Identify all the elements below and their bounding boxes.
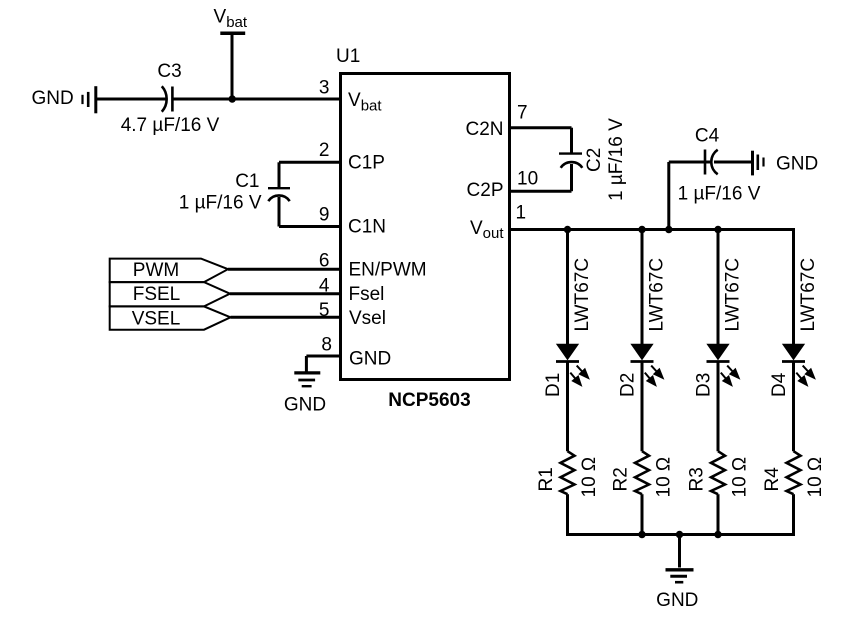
svg-text:GND: GND [32, 88, 74, 109]
junction node R3 [714, 531, 721, 538]
connector flag PWM [110, 259, 228, 283]
wire C3 to pin 3 [172, 98, 340, 101]
capacitor C1 [268, 188, 290, 201]
ground symbol (C4) [753, 151, 764, 176]
svg-text:NCP5603: NCP5603 [388, 390, 470, 411]
LED D1 [557, 345, 577, 360]
svg-text:VSEL: VSEL [132, 309, 181, 330]
svg-text:LWT67C: LWT67C [572, 258, 593, 332]
ground symbol (bottom) [666, 570, 694, 582]
LED column D3 [687, 230, 751, 535]
svg-text:GND: GND [349, 349, 391, 370]
wire R1 bottom [566, 494, 569, 534]
svg-text:10 Ω: 10 Ω [579, 457, 600, 498]
wire D1 anode [566, 230, 569, 345]
wire C2 bottom branch [570, 164, 573, 191]
junction node R2 [638, 531, 645, 538]
wire pin 2 to C1 [279, 161, 341, 164]
wire bottom bus [566, 533, 795, 536]
wire D1 cathode [566, 362, 569, 452]
wire D4 anode [792, 228, 795, 345]
svg-text:C1: C1 [235, 171, 259, 192]
capacitor C2 [559, 154, 582, 168]
junction node at Vbat [229, 95, 236, 102]
wire D3 anode [717, 230, 720, 345]
LED column D2 [611, 230, 675, 535]
wire C4 left [669, 161, 710, 164]
wire R2 bottom [641, 494, 644, 534]
svg-text:GND: GND [656, 590, 698, 611]
LED D4 [783, 345, 803, 360]
LED column D1 [536, 230, 600, 535]
wire ground stem (bottom) [678, 535, 681, 568]
svg-text:1 µF/16 V: 1 µF/16 V [678, 184, 761, 205]
connector flag VSEL [110, 306, 231, 329]
svg-text:U1: U1 [336, 46, 360, 67]
wire C1 top branch [278, 162, 281, 187]
svg-text:D3: D3 [694, 373, 715, 397]
wire pin 6 [228, 268, 341, 271]
LED D2 [632, 345, 652, 360]
svg-text:C2: C2 [584, 148, 605, 172]
svg-text:6: 6 [319, 250, 330, 271]
svg-text:FSEL: FSEL [133, 284, 181, 305]
svg-text:Fsel: Fsel [349, 284, 385, 305]
svg-text:LWT67C: LWT67C [798, 258, 819, 332]
svg-text:10 Ω: 10 Ω [730, 457, 751, 498]
svg-text:C1N: C1N [348, 217, 386, 238]
svg-text:C4: C4 [695, 126, 720, 147]
wire R3 bottom [717, 494, 720, 534]
junction node D1 [564, 226, 571, 233]
svg-text:10 Ω: 10 Ω [654, 457, 675, 498]
svg-text:GND: GND [284, 395, 326, 416]
wire pin 4 [230, 292, 341, 295]
wire pin 7 [510, 126, 572, 129]
svg-text:D2: D2 [618, 373, 639, 397]
wire R4 bottom [792, 494, 795, 534]
resistor R1 [561, 451, 575, 494]
svg-text:D1: D1 [543, 373, 564, 397]
wire pin 9 to C1 [279, 225, 341, 228]
svg-text:Vsel: Vsel [349, 308, 386, 329]
svg-text:GND: GND [776, 154, 818, 175]
wire pin 8 [306, 355, 340, 358]
wire C4 stem [667, 162, 670, 230]
junction node D3 [714, 226, 721, 233]
svg-text:2: 2 [319, 140, 330, 161]
svg-text:1 µF/16 V: 1 µF/16 V [606, 118, 627, 201]
ground symbol (left, at C3) [83, 86, 96, 113]
wire C4 to ground [714, 161, 753, 164]
svg-text:10 Ω: 10 Ω [805, 457, 826, 498]
wire pin 5 [231, 316, 341, 319]
svg-text:LWT67C: LWT67C [723, 258, 744, 332]
svg-text:C2N: C2N [465, 119, 503, 140]
junction node C4 [665, 226, 672, 233]
junction node GND stem [676, 531, 683, 538]
svg-text:1 µF/16 V: 1 µF/16 V [179, 193, 262, 214]
svg-text:D4: D4 [769, 372, 790, 397]
capacitor C4 [705, 150, 718, 175]
wire D3 cathode [717, 362, 720, 452]
svg-text:R4: R4 [762, 467, 783, 492]
LED D3 [708, 345, 728, 360]
wire pin 1 Vout bus [510, 228, 796, 231]
wire C2 top branch [570, 128, 573, 153]
power symbol Vbat [220, 31, 245, 35]
svg-text:C2P: C2P [467, 180, 504, 201]
capacitor C3 [162, 86, 173, 111]
connector flag FSEL [110, 282, 230, 306]
junction node D2 [638, 226, 645, 233]
LED column D4 [762, 228, 826, 535]
svg-text:C1P: C1P [348, 152, 385, 173]
svg-text:R1: R1 [536, 467, 557, 491]
wire pin 10 [510, 190, 572, 193]
svg-text:8: 8 [321, 335, 332, 356]
svg-text:1: 1 [516, 203, 527, 224]
svg-text:R2: R2 [611, 467, 632, 491]
wire D4 cathode [792, 362, 795, 452]
svg-text:5: 5 [319, 300, 330, 321]
resistor R3 [711, 451, 725, 494]
svg-text:C3: C3 [157, 61, 181, 82]
svg-text:LWT67C: LWT67C [647, 258, 668, 332]
svg-text:4: 4 [319, 276, 330, 297]
wire C1 bottom branch [278, 197, 281, 227]
svg-text:10: 10 [517, 169, 538, 190]
wire D2 cathode [641, 362, 644, 452]
op IC U1 NCP5603 [341, 74, 510, 380]
wire D2 anode [641, 230, 644, 345]
svg-text:4.7 µF/16 V: 4.7 µF/16 V [121, 115, 220, 136]
svg-text:9: 9 [319, 205, 330, 226]
svg-text:R3: R3 [687, 467, 708, 491]
svg-text:3: 3 [319, 78, 330, 99]
svg-text:7: 7 [517, 103, 528, 124]
wire Vbat supply [231, 33, 234, 99]
resistor R4 [787, 451, 801, 494]
svg-text:PWM: PWM [133, 260, 179, 281]
svg-text:EN/PWM: EN/PWM [349, 260, 427, 281]
wire ground to C3 [96, 98, 166, 101]
resistor R2 [635, 451, 649, 494]
wire pin 8 ground stem [305, 356, 308, 372]
ground symbol (pin 8) [294, 373, 320, 386]
